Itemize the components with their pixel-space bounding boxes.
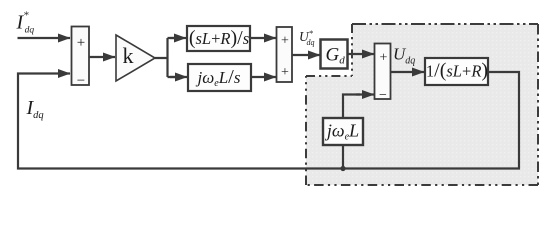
block jweL [323,118,363,145]
plant box notch horizontal edge (dash-dot) [306,75,352,77]
svg-text:I*dq: I*dq [16,9,35,36]
node: junction dot on feedback line [340,166,345,171]
summer S3 [375,44,391,100]
wire: block (sL+R)/s output to summer S2 [250,37,276,39]
svg-text:1/(sL+R): 1/(sL+R) [426,60,488,82]
wire: Gd output to summer S3 plus [347,53,374,55]
svg-text:k: k [123,43,134,68]
wire: reference input into summer S1 [18,37,71,39]
wire: block jwL/s output to summer S2 [251,76,276,78]
plant model dash-dot box (shaded region with notch) [306,24,538,185]
block Gd [321,40,348,69]
svg-text:jωeL/s: jωeL/s [196,66,241,89]
block 1/(sL+R) [425,58,488,85]
svg-text:(sL+R)/s: (sL+R)/s [189,27,249,49]
block (sL+R)/s [187,26,250,51]
wire: feedback path from plant output around bottom into summer S1 minus [18,72,519,169]
summer S2 [277,27,293,82]
svg-text:−: − [379,88,387,103]
svg-text:+: + [77,35,85,51]
plant box notch vertical edge (dash-dot) [351,24,353,76]
plant box bottom edge (dash-dot) [306,184,538,186]
plant box right edge (dash-dot) [537,24,539,185]
svg-text:+: + [281,65,289,80]
plant box left edge (dash-dot) [305,76,307,185]
wire: gain k output branch to the two blocks [155,38,180,77]
svg-text:U*dq: U*dq [299,28,315,47]
svg-text:+: + [380,51,388,66]
svg-text:jωeL: jωeL [325,121,359,143]
gain k (triangle) [116,35,155,81]
wire: feedback junction up into jwL block [342,145,344,169]
wire: summer S2 output U*dq to block Gd [291,54,320,56]
wire: summer S1 output to gain k [89,56,115,58]
svg-text:−: − [77,73,85,89]
wire: summer S3 output Udq to block 1/(sL+R) [390,71,424,73]
wire: arrow into block (sL+R)/s [170,37,186,39]
wire: jwL block output up into summer S3 minus [343,95,360,119]
plant box top edge (dash-dot) [352,23,538,25]
block jweL/s [188,64,251,91]
svg-text:Idq: Idq [26,97,44,121]
svg-text:+: + [281,34,289,49]
summer S1 [72,27,90,86]
wire: arrow into block jwL/s [170,76,187,78]
